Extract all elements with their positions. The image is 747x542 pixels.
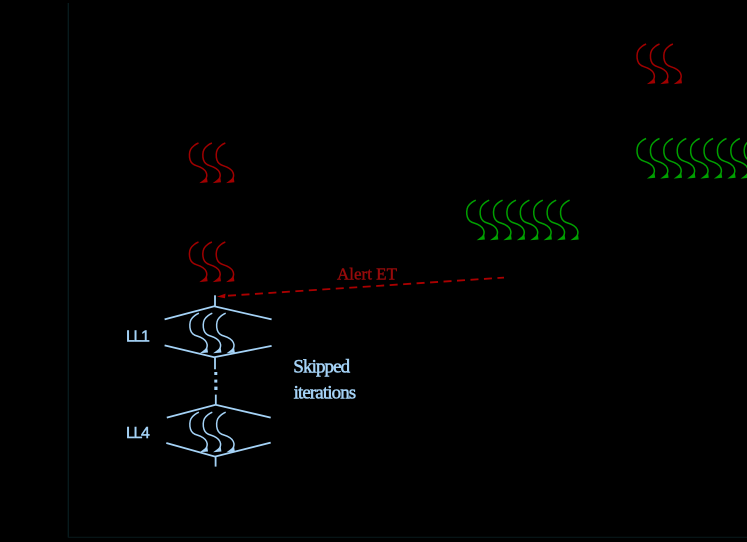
svg-text:LL4: LL4 bbox=[126, 425, 150, 442]
svg-text:LL1: LL1 bbox=[126, 329, 150, 346]
svg-text:iterations: iterations bbox=[294, 383, 356, 404]
svg-text:Alert ET: Alert ET bbox=[337, 265, 398, 284]
svg-text:Skipped: Skipped bbox=[293, 356, 350, 377]
